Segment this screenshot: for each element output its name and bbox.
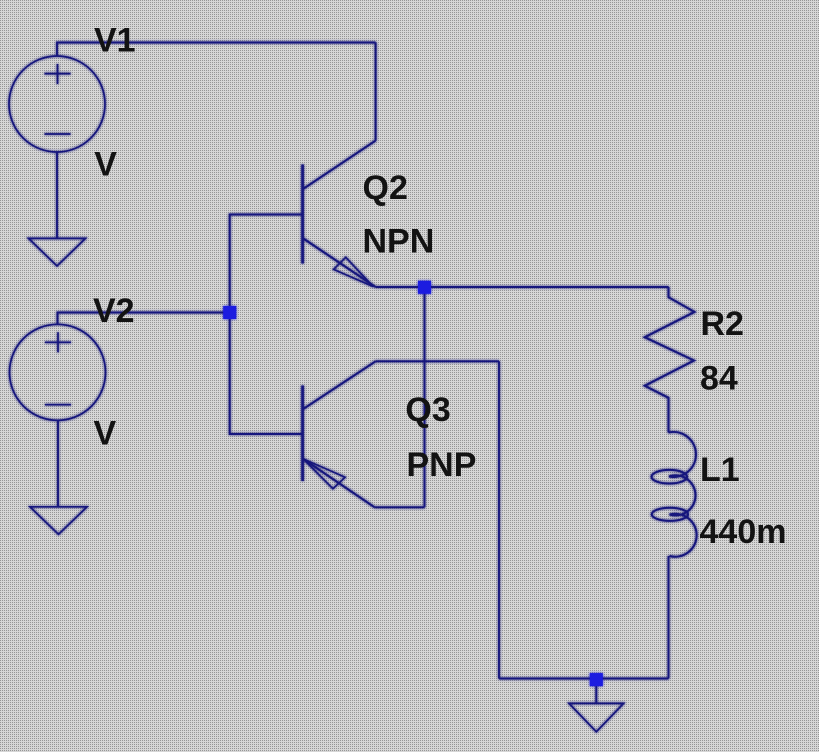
resistor R2 bbox=[645, 287, 695, 433]
svg-text:PNP: PNP bbox=[407, 446, 477, 484]
transistor Q2 bbox=[303, 141, 376, 287]
wire bottom horizontal bbox=[499, 678, 669, 680]
svg-text:NPN: NPN bbox=[363, 223, 435, 261]
ground (V1) bbox=[29, 238, 86, 266]
wire Q3 collector horizontal bbox=[376, 360, 499, 362]
voltage source V2 bbox=[10, 324, 106, 420]
wire bottom node to ground bbox=[595, 679, 597, 704]
svg-text:V: V bbox=[94, 146, 117, 184]
svg-text:84: 84 bbox=[700, 359, 738, 397]
svg-text:V: V bbox=[94, 414, 117, 452]
ground (V2) bbox=[30, 507, 87, 535]
svg-text:V1: V1 bbox=[94, 22, 136, 60]
svg-text:R2: R2 bbox=[701, 305, 744, 343]
junction node B bbox=[223, 306, 236, 319]
svg-text:V2: V2 bbox=[93, 292, 135, 330]
svg-text:Q3: Q3 bbox=[405, 391, 450, 429]
wire Q2 collector vertical bbox=[375, 43, 377, 141]
junction bottom node bbox=[590, 673, 603, 686]
junction output node bbox=[418, 281, 431, 294]
wire node B up to Q2 base bbox=[230, 215, 303, 313]
wire V2 bottom to ground bbox=[57, 420, 59, 507]
svg-text:440m: 440m bbox=[700, 513, 787, 551]
wire V1 bottom to ground bbox=[56, 152, 58, 238]
voltage source V1 bbox=[9, 56, 105, 152]
wire V1 top to collector bbox=[57, 43, 376, 57]
wire V2 top to node B bbox=[58, 313, 230, 325]
svg-text:Q2: Q2 bbox=[363, 169, 408, 207]
wire node B down to Q3 base bbox=[230, 313, 303, 435]
wire Q2 emitter to R2 bbox=[376, 286, 669, 288]
wire output node down bbox=[424, 287, 426, 507]
wire right vertical down bbox=[498, 361, 500, 678]
inductor L1 bbox=[652, 432, 697, 557]
wire L1 bottom lead bbox=[668, 556, 670, 679]
wire Q3 emitter horizontal bbox=[375, 506, 425, 508]
svg-text:L1: L1 bbox=[700, 451, 740, 489]
transistor Q3 bbox=[303, 361, 376, 507]
ground (bottom) bbox=[569, 703, 624, 731]
